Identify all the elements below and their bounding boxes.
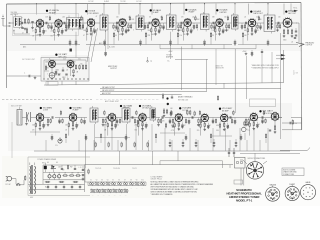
components AM lower extra row bbox=[51, 133, 267, 143]
label test point TP1 bbox=[147, 57, 152, 63]
svg-text:470: 470 bbox=[162, 121, 165, 123]
svg-text:MPX OSC: MPX OSC bbox=[59, 56, 68, 58]
tube V2 6U8 oscillator-mixer bbox=[87, 18, 94, 28]
wire FM front end enclosure bbox=[13, 14, 79, 36]
tube V10 6BE6 converter bbox=[36, 113, 43, 123]
svg-text:.01: .01 bbox=[80, 167, 82, 169]
scan haze tint bands bbox=[2, 4, 302, 198]
components AM coupling network 6 bbox=[134, 110, 139, 124]
components coupling network 1 bbox=[48, 15, 53, 29]
wire audio output bus 1 FM enclosure bottom bbox=[44, 82, 284, 89]
wire elbow right bus to AM bbox=[282, 129, 302, 131]
label heater notes bbox=[151, 176, 163, 181]
svg-text:300 OHM: 300 OHM bbox=[11, 12, 18, 14]
svg-text:40: 40 bbox=[56, 162, 58, 164]
wire PS rails bbox=[28, 165, 85, 192]
components coupling network 14 bbox=[276, 23, 281, 32]
svg-text:3300: 3300 bbox=[283, 40, 287, 42]
tube V15 12AX7 audio amp bbox=[201, 113, 208, 123]
components AGC filter bottom bbox=[99, 31, 108, 57]
wire power supply enclosure top bbox=[28, 156, 90, 158]
svg-text:100: 100 bbox=[66, 19, 69, 21]
svg-text:.02: .02 bbox=[66, 70, 68, 72]
wire power supply enclosure bottom bbox=[28, 195, 90, 197]
label V9 12AT7 multiplex bbox=[55, 53, 68, 58]
wire audio output bus 4 bbox=[100, 94, 182, 96]
svg-text:10.7 MC: 10.7 MC bbox=[88, 1, 95, 3]
capacitor input coupling multiplex bbox=[7, 73, 42, 80]
value labels PS bbox=[30, 162, 79, 199]
svg-text:150: 150 bbox=[180, 35, 183, 37]
svg-text:.1: .1 bbox=[24, 73, 25, 75]
svg-text:TO PIN 1: TO PIN 1 bbox=[120, 1, 126, 3]
svg-text:V10: V10 bbox=[141, 180, 144, 182]
svg-text:AF AMP: AF AMP bbox=[222, 109, 229, 112]
svg-text:.005: .005 bbox=[116, 125, 119, 127]
transformer oscillator coil assembly bbox=[67, 15, 84, 32]
tube heater pins V7 bbox=[123, 182, 127, 186]
tube heater pins second row 7 bbox=[124, 189, 128, 193]
wire AM to PS feed bbox=[85, 134, 87, 168]
components PS lower resistors bbox=[45, 181, 79, 182]
svg-text:V1: V1 bbox=[90, 180, 92, 182]
svg-text:HEATHKIT PROFESSIONAL: HEATHKIT PROFESSIONAL bbox=[227, 191, 263, 195]
label V14 6AV6 bbox=[179, 107, 192, 112]
wire divider right segment bbox=[96, 99, 160, 101]
tube heater pins V5 bbox=[111, 182, 115, 186]
label top margin part numbers bbox=[88, 0, 143, 3]
tube heater pins V6 bbox=[117, 182, 121, 186]
wire ground bus FM front bbox=[20, 44, 80, 46]
svg-text:4.7K: 4.7K bbox=[171, 130, 174, 132]
wire vertical B+ feed mid bbox=[170, 32, 172, 59]
svg-text:1K: 1K bbox=[215, 34, 217, 36]
wire vertical mid 2 bbox=[181, 47, 183, 91]
svg-text:1K: 1K bbox=[65, 130, 67, 132]
components V18 output network bbox=[269, 120, 277, 133]
wire B+ rail top border bbox=[7, 3, 302, 5]
wire FM detector output bbox=[294, 23, 315, 47]
plug AC line cord bbox=[5, 176, 16, 186]
svg-text:5K: 5K bbox=[77, 173, 79, 175]
svg-text:.001: .001 bbox=[256, 30, 259, 32]
capacitor coupling caps AM path bbox=[52, 116, 263, 118]
svg-text:.01: .01 bbox=[159, 30, 161, 32]
components AM coupling network 12 bbox=[231, 110, 236, 124]
components coupling network 2 bbox=[65, 23, 70, 32]
components stage V4 bbox=[148, 27, 162, 41]
svg-text:LIMITER: LIMITER bbox=[219, 12, 227, 14]
socket base diagram 12AX7 bbox=[285, 183, 299, 201]
label V5 6AU6 bbox=[216, 9, 228, 14]
transformer T3 FM IF bbox=[167, 13, 177, 32]
components AM band top-left cluster bbox=[162, 93, 218, 101]
capacitor can C20 bbox=[49, 73, 55, 79]
components PS left cap stack bbox=[80, 166, 90, 181]
svg-text:12K: 12K bbox=[36, 35, 39, 37]
diode D1 bbox=[51, 166, 56, 172]
wire multiplex terminal row bbox=[43, 78, 88, 79]
svg-text:SELECTOR: SELECTOR bbox=[216, 68, 225, 70]
capacitor right coupling bbox=[282, 122, 302, 124]
svg-text:CONNECTIONS: CONNECTIONS bbox=[283, 174, 294, 176]
components coupling network 9 bbox=[193, 15, 198, 29]
svg-text:OSC-MIXER: OSC-MIXER bbox=[88, 13, 99, 15]
tube V4 6AU6 second IF bbox=[152, 18, 159, 28]
capacitor coupling caps on signal path bbox=[22, 22, 280, 24]
resistor stack AM detector bbox=[187, 110, 196, 117]
svg-text:47: 47 bbox=[83, 35, 85, 37]
wire verticals crossing mid gap bbox=[247, 52, 273, 88]
components coupling network 5 bbox=[127, 15, 132, 31]
svg-text:220: 220 bbox=[197, 130, 200, 132]
svg-text:DET-AVC: DET-AVC bbox=[142, 107, 150, 110]
label output lines bbox=[102, 86, 115, 95]
label multi lugs note bbox=[282, 168, 304, 176]
svg-text:6AU6: 6AU6 bbox=[306, 181, 311, 184]
svg-text:TO V11: TO V11 bbox=[132, 168, 137, 170]
capacitor C41 electrolytic bbox=[53, 175, 56, 179]
components AM coupling network 9 bbox=[185, 118, 190, 125]
svg-text:68K: 68K bbox=[216, 125, 219, 127]
tube heater pins V8 bbox=[129, 182, 133, 186]
wire heater feed bbox=[85, 168, 146, 186]
switch SW1 power bbox=[16, 179, 24, 186]
tube heater pins second row 2 bbox=[96, 189, 100, 193]
transformer T4 FM IF bbox=[201, 12, 210, 32]
components AM coupling network 3 bbox=[81, 118, 86, 125]
svg-text:680: 680 bbox=[244, 30, 247, 32]
svg-text:2.2K: 2.2K bbox=[256, 17, 259, 19]
wire AM out elbow right bbox=[279, 117, 282, 119]
components coupling network 11 bbox=[225, 15, 230, 31]
wire B+ risers bbox=[37, 4, 285, 15]
svg-text:V6: V6 bbox=[118, 180, 120, 182]
label voltage chart notes bbox=[251, 64, 279, 70]
svg-text:.02: .02 bbox=[192, 17, 194, 19]
svg-text:V7: V7 bbox=[124, 180, 126, 182]
svg-text:150: 150 bbox=[278, 17, 281, 19]
svg-text:10K: 10K bbox=[81, 20, 84, 22]
svg-text:.003: .003 bbox=[151, 34, 154, 36]
svg-text:220K: 220K bbox=[196, 19, 200, 21]
svg-text:220: 220 bbox=[51, 31, 54, 33]
resistor filter chain bbox=[62, 175, 81, 176]
svg-text:6BQ7A: 6BQ7A bbox=[270, 184, 277, 187]
wire left feed down bbox=[11, 122, 13, 158]
socket wiring detail view bbox=[246, 162, 263, 179]
components stage V15 bbox=[197, 122, 211, 136]
svg-text:TP: TP bbox=[150, 61, 152, 63]
components AM coupling network 5 bbox=[116, 118, 121, 124]
components AM coupling network 2 bbox=[58, 110, 63, 124]
resistor row AM lower bbox=[95, 142, 148, 148]
svg-text:47K: 47K bbox=[119, 34, 122, 36]
svg-text:47K: 47K bbox=[180, 30, 183, 32]
connector terminal block small bbox=[70, 49, 72, 52]
wire ground bus FM IF bbox=[86, 44, 232, 46]
components coupling network 4 bbox=[113, 23, 118, 30]
svg-text:+105V: +105V bbox=[168, 51, 172, 53]
transformer T6 ratio detector bbox=[264, 13, 275, 34]
capacitor multiplex caps bbox=[58, 67, 68, 75]
svg-text:IF AMP: IF AMP bbox=[188, 11, 195, 14]
node junction dot AM bbox=[167, 103, 169, 105]
svg-text:40: 40 bbox=[47, 162, 49, 164]
svg-text:OSC: OSC bbox=[78, 58, 81, 60]
wire FM-AM divider dashed bbox=[2, 99, 92, 101]
wire small box above title bbox=[234, 180, 243, 184]
wire bus step verticals bbox=[160, 161, 230, 168]
components stage V2 bbox=[83, 27, 97, 41]
wire dim tick bbox=[293, 70, 295, 75]
svg-text:TO V6-V10: TO V6-V10 bbox=[113, 168, 120, 170]
svg-text:220: 220 bbox=[116, 17, 119, 19]
wire osc feed to multiplex bbox=[75, 32, 77, 58]
transformer T8 AM IF bbox=[122, 106, 130, 124]
svg-text:TO V1-V5: TO V1-V5 bbox=[95, 168, 101, 170]
tube heater pins V4 bbox=[106, 182, 110, 186]
svg-text:EXT GND LUG: EXT GND LUG bbox=[178, 99, 189, 101]
svg-text:V3: V3 bbox=[101, 180, 103, 182]
wire PS verticals bbox=[47, 165, 81, 190]
value labels multiplex bbox=[45, 62, 83, 80]
tube heater pins V9 bbox=[135, 182, 139, 186]
components multiplex extra parts bbox=[45, 65, 74, 77]
label multiplex output bbox=[108, 66, 118, 70]
svg-text:1K: 1K bbox=[32, 36, 34, 38]
tube V17 cathode follower bbox=[250, 112, 257, 122]
svg-text:B+: B+ bbox=[168, 61, 170, 63]
fuse F1 bbox=[25, 175, 26, 181]
components AM coupling network 7 bbox=[157, 118, 162, 127]
svg-text:TO B+: TO B+ bbox=[293, 8, 297, 10]
tube heater pins second row 6 bbox=[118, 189, 122, 193]
svg-text:.02: .02 bbox=[209, 125, 211, 127]
wire screen bus bbox=[160, 48, 256, 50]
wire AM long drops right half bbox=[153, 128, 269, 165]
label heater feed labels bbox=[95, 168, 137, 170]
label V16 12AX7 bbox=[259, 110, 273, 115]
svg-text:330: 330 bbox=[148, 30, 151, 32]
wire power supply enclosure left bbox=[27, 157, 29, 196]
svg-text:SOCKET CONNECTIONS: SOCKET CONNECTIONS bbox=[248, 158, 266, 160]
svg-text:.01: .01 bbox=[53, 35, 55, 37]
svg-text:SCHEMATIC: SCHEMATIC bbox=[236, 188, 252, 192]
svg-text:68: 68 bbox=[115, 30, 117, 32]
antenna ANT1 FM dipole bbox=[1, 12, 18, 27]
svg-text:OUTPUT: OUTPUT bbox=[110, 68, 117, 70]
svg-text:330: 330 bbox=[216, 130, 219, 132]
svg-text:220: 220 bbox=[80, 64, 83, 66]
label notes block bbox=[151, 180, 215, 196]
label V6 6AL5 bbox=[250, 10, 264, 15]
tube V5 6AU6 third IF bbox=[184, 18, 191, 28]
components B plus decoupling bbox=[69, 40, 270, 46]
antenna L2 AM loop bbox=[11, 105, 22, 126]
svg-text:B+: B+ bbox=[45, 187, 47, 189]
wire heater bus2 top bbox=[90, 188, 128, 190]
components coupling network 12 bbox=[241, 23, 246, 29]
svg-text:V4: V4 bbox=[107, 180, 109, 182]
wire socket detail leads bbox=[240, 160, 267, 164]
potentiometer volume control bbox=[55, 137, 62, 147]
wire am output to right border bbox=[291, 118, 302, 130]
components stage V13 bbox=[135, 122, 149, 136]
tube heater pins second row 5 bbox=[113, 189, 117, 193]
label V3 6AU6 bbox=[150, 9, 162, 14]
wire multiplex internal wiring bbox=[44, 60, 86, 79]
tube V1B 6BQ7A mixer bbox=[55, 19, 62, 29]
transformer T9 AM detector coil bbox=[150, 106, 156, 122]
svg-text:12AX7: 12AX7 bbox=[289, 183, 295, 186]
components coupling network 8 bbox=[177, 23, 182, 32]
wire AM gap horizontal links bbox=[30, 132, 232, 138]
tube V3 6AU6 first IF bbox=[119, 18, 126, 28]
wire socket feed vertical bbox=[254, 153, 256, 161]
svg-text:2.2K: 2.2K bbox=[212, 30, 215, 32]
components coupling network 7 bbox=[160, 15, 165, 29]
svg-text:V2: V2 bbox=[96, 180, 98, 182]
transformer T2 FM IF bbox=[136, 14, 144, 32]
wire title verticals bbox=[241, 168, 244, 185]
socket base diagram 6BQ7A bbox=[266, 184, 280, 202]
svg-text:.01: .01 bbox=[247, 34, 249, 36]
table voltage chart box bbox=[250, 99, 276, 107]
svg-text:+250V: +250V bbox=[242, 51, 246, 53]
svg-text:250V: 250V bbox=[63, 58, 66, 60]
wire AM signal path bbox=[22, 117, 282, 119]
capacitor C40 electrolytic bbox=[48, 175, 51, 179]
svg-text:V5: V5 bbox=[112, 180, 114, 182]
svg-text:.001: .001 bbox=[44, 31, 47, 33]
svg-text:10K: 10K bbox=[170, 108, 173, 110]
components coupling network 6 bbox=[144, 23, 149, 29]
svg-text:RECT: RECT bbox=[42, 163, 46, 165]
components coupling network 3 bbox=[79, 15, 84, 29]
tube heater pins V3 bbox=[100, 182, 104, 186]
svg-text:.01: .01 bbox=[128, 17, 130, 19]
tube V9A 12AT7 bbox=[49, 59, 56, 68]
components stage V1 bbox=[32, 28, 47, 41]
tube V9B 12AT7 bbox=[67, 59, 74, 68]
tube V18 cathode follower 2 bbox=[271, 112, 278, 122]
components coupling network 10 bbox=[211, 23, 216, 30]
components stage V16 bbox=[216, 122, 229, 136]
svg-text:10: 10 bbox=[62, 31, 64, 33]
svg-text:6.3V: 6.3V bbox=[30, 197, 33, 199]
svg-text:1K: 1K bbox=[246, 129, 248, 131]
svg-text:CONV: CONV bbox=[43, 110, 49, 112]
components stage V7 bbox=[244, 27, 259, 41]
svg-text:OUTPUT: OUTPUT bbox=[306, 45, 313, 47]
svg-text:4.7: 4.7 bbox=[21, 18, 23, 20]
resistor network multiplex bbox=[75, 64, 86, 70]
tube V1A 6BQ7A RF amplifier bbox=[36, 19, 43, 29]
wire audio output bus 2 bbox=[100, 88, 281, 99]
label mid small text 1 bbox=[166, 55, 224, 70]
tube heater pins second row 1 bbox=[91, 189, 95, 193]
svg-text:.05: .05 bbox=[44, 125, 46, 127]
svg-text:680: 680 bbox=[135, 130, 138, 132]
tube heater pins V2 bbox=[95, 182, 99, 186]
svg-text:10.7 MC: 10.7 MC bbox=[136, 1, 143, 3]
label V13 6AV6 bbox=[139, 104, 152, 109]
components PS top extras bbox=[61, 165, 76, 170]
transformer T7 AM IF bbox=[90, 106, 98, 124]
components stage V11 bbox=[65, 122, 79, 136]
wire ground bus right extension bbox=[238, 44, 298, 46]
components AM coupling network 8 bbox=[169, 110, 174, 124]
components AM coupling network 4 bbox=[102, 110, 107, 126]
svg-text:47: 47 bbox=[32, 31, 34, 33]
svg-text:IF AMP: IF AMP bbox=[153, 11, 160, 14]
svg-text:68: 68 bbox=[149, 17, 151, 19]
svg-text:100K: 100K bbox=[83, 30, 87, 32]
tube heater pins second row 3 bbox=[102, 189, 106, 193]
wire heater bus2 bottom bbox=[90, 192, 128, 194]
label V7 6AL5 bbox=[285, 10, 297, 15]
tube heater pins V1 bbox=[89, 182, 93, 186]
capacitor C1 C2 trimmers bbox=[24, 18, 34, 30]
wire line to socket detail bbox=[280, 148, 310, 151]
tube V14 6AV6 first audio bbox=[175, 113, 182, 123]
svg-text:1K: 1K bbox=[64, 173, 66, 175]
label V4 6AU6 bbox=[185, 8, 197, 13]
wire bus risers FM bbox=[160, 45, 256, 49]
node B+ rail junction dots bbox=[36, 3, 269, 4]
svg-text:V8: V8 bbox=[130, 180, 132, 182]
svg-text:2 1/8: 2 1/8 bbox=[295, 73, 299, 75]
wire audio output bus 3 bbox=[100, 59, 207, 91]
components stage V1B bbox=[51, 28, 65, 41]
label heater tube numbers bbox=[90, 180, 144, 182]
transformer T5 FM IF bbox=[232, 13, 239, 31]
components stage V10 bbox=[32, 122, 46, 136]
wire FM signal path bbox=[10, 22, 297, 24]
svg-text:FM MPX OUTPUT: FM MPX OUTPUT bbox=[102, 90, 114, 92]
label V15 12AX7 bbox=[219, 107, 233, 112]
components AM coupling network 10 bbox=[197, 110, 202, 126]
components FM enclosure top strip parts bbox=[245, 49, 264, 56]
svg-text:MODEL PT-1: MODEL PT-1 bbox=[236, 198, 253, 202]
components AM coupling network 11 bbox=[212, 118, 217, 124]
transformer T1 FM IF bbox=[100, 13, 108, 32]
components screen dropping resistors bbox=[113, 32, 243, 45]
svg-text:.02: .02 bbox=[191, 30, 193, 32]
tube V8 6AL5 ratio detector bbox=[283, 17, 292, 28]
wire AM risers to bus bbox=[46, 124, 260, 151]
wire multiplex drops to output bus bbox=[48, 81, 76, 85]
wire left border bbox=[6, 4, 8, 88]
svg-text:.02: .02 bbox=[291, 42, 293, 44]
svg-text:47K: 47K bbox=[104, 125, 107, 127]
svg-text:FM TUNER UNIT: FM TUNER UNIT bbox=[22, 59, 35, 61]
svg-text:V9: V9 bbox=[136, 180, 138, 182]
label V1 6BQ7A bbox=[46, 9, 59, 14]
wire AGC diagonal wires bbox=[87, 28, 98, 62]
socket base diagram 6AU6 bbox=[300, 181, 315, 200]
label V10 6BE6 bbox=[40, 107, 53, 112]
svg-text:RF AMP: RF AMP bbox=[49, 11, 56, 14]
svg-text:1.5K: 1.5K bbox=[131, 19, 134, 21]
tube V11 6BA6 AM IF bbox=[69, 113, 76, 123]
svg-text:AFC DET: AFC DET bbox=[288, 12, 297, 15]
svg-text:100: 100 bbox=[224, 17, 227, 19]
connector B+ feed arrow top right bbox=[288, 3, 298, 12]
wire risers AM to bottom bus bbox=[119, 151, 178, 165]
rectifier B1 selenium bbox=[42, 163, 47, 173]
